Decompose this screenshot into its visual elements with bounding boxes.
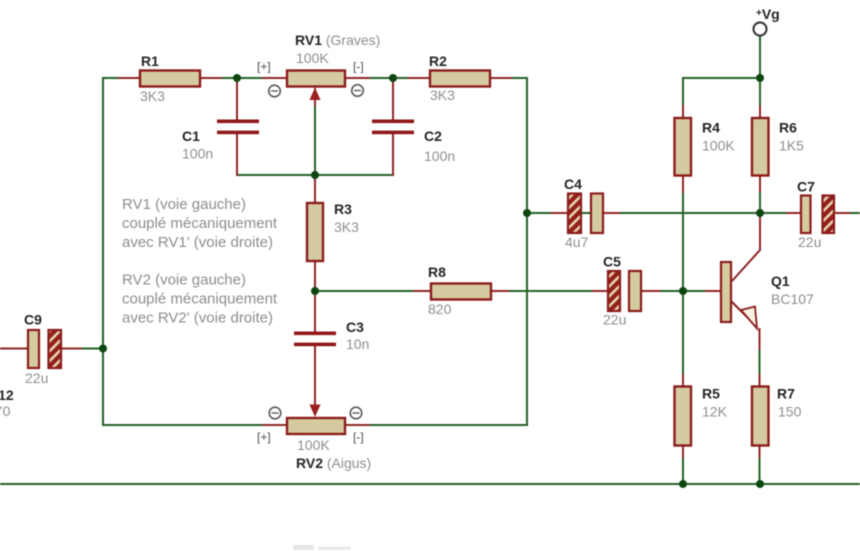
wire top horizontal net <box>103 77 527 79</box>
wire R8 left pin stub <box>413 290 432 292</box>
junction base node <box>679 287 687 295</box>
wire +Vg terminal drop <box>759 36 761 79</box>
svg-text:3K3: 3K3 <box>430 87 455 103</box>
svg-text:C4: C4 <box>564 176 582 192</box>
wire C1 top lead <box>236 78 238 120</box>
wire R4 top pin stub <box>682 105 684 118</box>
wire node A to R8 <box>315 290 432 292</box>
svg-text:100K: 100K <box>296 50 329 66</box>
wire C5 right lead <box>641 290 660 292</box>
svg-text:10n: 10n <box>346 336 369 352</box>
transistor Q1 base bar <box>721 262 731 322</box>
wire bottom of tone loop <box>103 424 527 426</box>
wire R6 top pin stub <box>759 105 761 118</box>
wire C4 left lead <box>551 212 568 214</box>
wire C3 top lead <box>314 291 316 332</box>
wire RV2 left pin stub <box>262 424 287 426</box>
potentiometer RV1 right turn symbol <box>352 85 364 97</box>
svg-text:R5: R5 <box>702 386 720 402</box>
svg-text:3K3: 3K3 <box>140 88 165 104</box>
transistor Q1 emitter arrowhead <box>741 307 757 329</box>
svg-text:RV1 (voie gauche): RV1 (voie gauche) <box>122 196 246 213</box>
svg-text:R2: R2 <box>429 53 447 69</box>
capacitor C7 positive plate <box>823 196 835 234</box>
svg-text:BC107: BC107 <box>771 291 814 307</box>
wire C2 bottom lead <box>392 133 394 176</box>
svg-text:R7: R7 <box>777 386 795 402</box>
resistor R6 <box>752 118 769 176</box>
svg-text:22u: 22u <box>25 370 48 386</box>
wire C1 bottom lead <box>236 133 238 176</box>
wire C7 to right edge <box>834 212 860 214</box>
svg-text:820: 820 <box>428 301 452 317</box>
resistor R5 <box>675 387 692 446</box>
svg-text:C1: C1 <box>182 128 200 144</box>
wire C5 to base node <box>641 290 721 292</box>
wire R7 to ground rail <box>759 446 761 484</box>
potentiometer RV1 wiper arrow <box>310 88 321 101</box>
svg-text:RV2 (voie gauche): RV2 (voie gauche) <box>122 272 246 289</box>
wire C4 node to C7 <box>527 212 801 214</box>
power terminal +Vg circle <box>754 23 767 36</box>
junction R7 ground node <box>756 480 764 488</box>
svg-text:R8: R8 <box>428 264 446 280</box>
svg-text:avec RV2' (voie droite): avec RV2' (voie droite) <box>122 310 273 327</box>
wire RV1 wiper stem <box>314 88 316 106</box>
svg-text:1K5: 1K5 <box>779 138 804 154</box>
wire C9 left lead <box>0 348 28 350</box>
wire Q1 collector lead <box>732 213 760 281</box>
junction R3 R8 C3 node <box>311 287 319 295</box>
capacitor C2 <box>372 120 414 135</box>
svg-text:couplé mécaniquement: couplé mécaniquement <box>122 215 278 232</box>
svg-text:150: 150 <box>778 404 802 420</box>
wire R6 drop <box>759 78 761 118</box>
wire R1 left pin stub <box>118 77 140 79</box>
svg-text:couplé mécaniquement: couplé mécaniquement <box>122 291 278 308</box>
junction R1 C1 node <box>233 74 241 82</box>
resistor R4 <box>675 118 692 176</box>
wire emitter arrow to R7 stub <box>759 328 761 350</box>
wire C2 top lead <box>392 78 394 120</box>
svg-text:100K: 100K <box>297 437 330 453</box>
svg-text:R6: R6 <box>779 120 797 136</box>
wire R4 to base node <box>682 192 684 291</box>
resistor R1 <box>140 71 200 87</box>
wire C9 to left vertical <box>78 348 103 350</box>
capacitor C5 negative plate <box>629 271 641 311</box>
junction RV1 C2 node <box>389 74 397 82</box>
wire base node to R5 <box>682 291 684 386</box>
wire Q1 base lead <box>705 290 721 292</box>
svg-text:C3: C3 <box>346 319 364 335</box>
svg-text:[+]: [+] <box>257 60 271 74</box>
wire R3 top lead <box>314 175 316 203</box>
resistor R3 <box>307 203 323 261</box>
label cut text at bottom edge <box>293 545 351 550</box>
wire C7 left lead <box>786 212 801 214</box>
capacitor C7 negative plate <box>801 196 811 234</box>
wire RV2 right pin stub <box>345 424 370 426</box>
wire left vertical <box>102 77 104 426</box>
svg-text:C5: C5 <box>603 254 621 270</box>
wire RV1 left pin stub <box>262 77 287 79</box>
svg-text:+Vg: +Vg <box>756 6 780 22</box>
svg-text:R12: R12 <box>0 387 14 403</box>
junction collector node <box>756 209 764 217</box>
wire R7 bottom pin stub <box>759 446 761 458</box>
wire R7 top pin stub <box>759 374 761 387</box>
wire C1 C2 bottom horizontal <box>237 174 393 176</box>
svg-text:22u: 22u <box>798 234 821 250</box>
svg-text:RV2 (Aigus): RV2 (Aigus) <box>296 455 371 471</box>
junction C9 input node <box>99 345 107 353</box>
wire emitter to R7 <box>759 330 761 386</box>
wire RV1 wiper to node <box>314 100 316 175</box>
wire C7 right lead <box>834 212 850 214</box>
resistor R7 <box>752 387 769 446</box>
svg-text:Q1: Q1 <box>771 273 790 289</box>
potentiometer RV2 right turn symbol <box>350 407 362 419</box>
svg-text:3K3: 3K3 <box>334 219 359 235</box>
wire ground rail bottom <box>0 483 860 485</box>
junction C4 feedback node <box>523 209 531 217</box>
svg-text:100n: 100n <box>182 146 213 162</box>
capacitor C5 positive plate <box>608 271 620 311</box>
wire R6 bottom pin stub <box>759 175 761 192</box>
wire R2 right pin stub <box>490 77 512 79</box>
capacitor C9 positive plate <box>49 330 62 368</box>
wire R5 to ground rail <box>682 446 684 484</box>
svg-text:[+]: [+] <box>257 430 271 444</box>
wire R5 bottom pin stub <box>682 446 684 458</box>
capacitor C4 negative plate <box>591 194 603 234</box>
resistor R2 <box>430 71 490 87</box>
wire R8 right pin stub <box>490 290 509 292</box>
potentiometer RV2 wiper arrow <box>310 405 321 418</box>
junction +Vg rail node <box>756 74 764 82</box>
svg-text:[-]: [-] <box>353 430 364 444</box>
svg-text:12K: 12K <box>702 404 728 420</box>
wire C9 right lead <box>61 348 82 350</box>
svg-text:C9: C9 <box>24 312 42 328</box>
resistor R8 <box>431 284 491 300</box>
svg-text:4u7: 4u7 <box>565 234 589 250</box>
svg-text:100K: 100K <box>702 138 735 154</box>
wire R4 bottom pin stub <box>682 175 684 193</box>
wire R4 branch vertical <box>682 77 684 118</box>
capacitor C4 positive plate <box>568 194 581 234</box>
svg-text:C7: C7 <box>797 179 815 195</box>
svg-text:R3: R3 <box>334 201 352 217</box>
wire R2 left pin stub <box>408 77 430 79</box>
wire Q1 emitter lead <box>731 301 757 327</box>
wire R1 right pin stub <box>200 77 222 79</box>
capacitor C9 negative plate <box>28 330 39 368</box>
wire R8 to C5 <box>490 290 608 292</box>
svg-text:470: 470 <box>0 403 11 419</box>
wire +Vg rail <box>683 77 760 79</box>
junction R5 ground node <box>679 480 687 488</box>
potentiometer RV2 left turn symbol <box>269 407 281 419</box>
wire C4 right lead <box>603 212 620 214</box>
svg-text:[-]: [-] <box>353 60 364 74</box>
svg-text:avec RV1' (voie droite): avec RV1' (voie droite) <box>122 234 273 251</box>
wire R5 top pin stub <box>682 374 684 387</box>
svg-text:RV1 (Graves): RV1 (Graves) <box>295 32 380 48</box>
junction C1 C2 R3 node <box>311 171 319 179</box>
wire R3 bottom lead <box>314 261 316 292</box>
svg-text:100n: 100n <box>424 148 455 164</box>
wire right vertical of tone loop <box>526 77 528 426</box>
svg-text:R4: R4 <box>702 120 720 136</box>
wire RV1 right pin stub <box>345 77 370 79</box>
wire C3 bottom lead to RV2 wiper <box>314 346 316 408</box>
wire R6 to collector node <box>759 175 761 213</box>
potentiometer RV2 body <box>287 418 345 434</box>
wire C5 left lead <box>592 290 608 292</box>
svg-text:R1: R1 <box>141 53 159 69</box>
capacitor C3 <box>294 332 336 347</box>
svg-text:22u: 22u <box>603 312 626 328</box>
svg-text:C2: C2 <box>424 128 442 144</box>
potentiometer RV1 left turn symbol <box>269 85 281 97</box>
potentiometer RV1 body <box>287 71 345 87</box>
capacitor C1 <box>217 120 259 135</box>
